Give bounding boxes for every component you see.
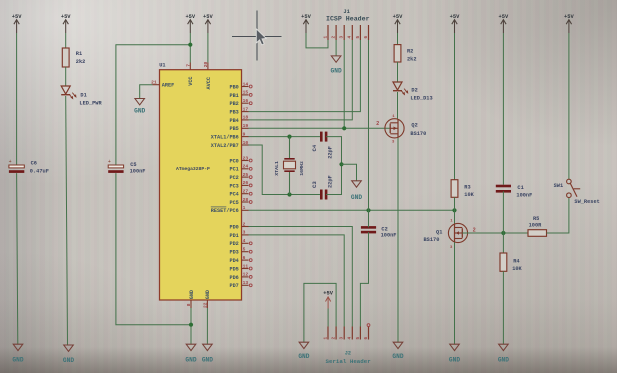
power +5V symbol (R1 supply)	[61, 14, 71, 33]
svg-text:U1: U1	[159, 63, 165, 69]
svg-text:R4: R4	[513, 259, 520, 265]
svg-text:SW1: SW1	[554, 183, 564, 189]
junction RESET / C2 / ICSP pin 6	[366, 208, 370, 212]
svg-text:GND: GND	[498, 356, 509, 363]
wire C6 to GND	[17, 173, 18, 344]
svg-text:ATmega328P-P: ATmega328P-P	[176, 166, 210, 172]
wire R2 to D2	[397, 62, 399, 82]
svg-text:+5V: +5V	[499, 14, 509, 20]
svg-text:4: 4	[348, 36, 353, 39]
svg-text:BS170: BS170	[423, 237, 439, 243]
svg-text:28: 28	[243, 197, 249, 203]
pin 22 GND stub	[206, 300, 208, 308]
svg-text:+5V: +5V	[61, 14, 71, 20]
svg-text:C1: C1	[517, 185, 523, 191]
svg-text:Q2: Q2	[411, 123, 417, 129]
svg-text:6: 6	[364, 337, 369, 340]
svg-text:24: 24	[243, 164, 249, 170]
pin 9 XTAL1/PB6 stub	[242, 136, 249, 138]
svg-text:5: 5	[356, 36, 361, 39]
svg-text:PD7: PD7	[229, 283, 238, 289]
svg-text:15: 15	[243, 90, 249, 96]
editor crosshair cursor	[232, 11, 282, 61]
svg-text:PD6: PD6	[229, 275, 238, 281]
svg-text:2: 2	[332, 337, 337, 340]
svg-text:27: 27	[243, 189, 249, 195]
svg-text:SW_Reset: SW_Reset	[574, 199, 599, 205]
svg-text:6: 6	[243, 255, 246, 261]
svg-text:GND: GND	[202, 357, 213, 364]
wire D1 to GND	[66, 96, 68, 345]
svg-text:5: 5	[243, 247, 246, 253]
svg-text:PD0: PD0	[229, 224, 238, 230]
svg-text:2k2: 2k2	[76, 59, 86, 65]
svg-text:7: 7	[185, 64, 191, 67]
svg-text:10: 10	[243, 140, 249, 146]
wire XTAL2 to C3	[249, 145, 322, 195]
svg-text:R3: R3	[464, 184, 470, 190]
wire C4 to GND net	[326, 137, 341, 165]
wire +5V to SW1	[568, 33, 570, 179]
svg-text:PD5: PD5	[229, 266, 238, 272]
junction C3/C4 ground net	[339, 162, 343, 166]
svg-text:+: +	[108, 159, 111, 165]
svg-text:C3: C3	[311, 181, 318, 188]
svg-text:3: 3	[243, 230, 246, 236]
capacitor C2 100nF	[361, 227, 376, 232]
svg-text:AREF: AREF	[162, 83, 174, 89]
resistor R3	[451, 180, 458, 198]
wire +5V to R1	[65, 33, 67, 48]
LED D2	[393, 82, 408, 95]
svg-text:22pF: 22pF	[328, 146, 334, 159]
svg-text:+5V: +5V	[12, 14, 22, 20]
svg-text:8: 8	[186, 303, 192, 306]
svg-text:BS170: BS170	[410, 131, 426, 137]
wire C5 bottom to GND pin 8 node	[116, 173, 191, 325]
pin 13 PD7 stub	[242, 284, 249, 286]
svg-text:+5V: +5V	[393, 14, 403, 20]
power +5V symbol (serial)	[323, 290, 333, 308]
svg-text:100nF: 100nF	[130, 168, 146, 174]
junction gate / C1 / R4 / R5	[501, 231, 505, 235]
svg-text:6: 6	[364, 36, 369, 39]
capacitor C1 100nF	[496, 186, 511, 191]
svg-text:18: 18	[243, 115, 249, 121]
wire C1 to gate node	[502, 191, 504, 233]
svg-text:XTAL1/PB6: XTAL1/PB6	[211, 135, 239, 141]
ground (C6)	[12, 344, 23, 363]
wire PB3 to ICSP pin 5	[249, 40, 361, 112]
ground (Q1)	[449, 344, 460, 363]
wire RESET to C2	[368, 210, 370, 227]
wire +5V to J2 pin 1	[327, 309, 329, 327]
svg-text:3: 3	[340, 36, 345, 39]
pin 19 PB5 stub	[242, 127, 249, 129]
ground (J1)	[331, 56, 342, 74]
svg-text:PB2: PB2	[229, 101, 238, 107]
svg-text:PD1: PD1	[229, 233, 238, 239]
svg-text:D2: D2	[411, 88, 417, 94]
wire ICSP pin 3 to SCK net	[343, 40, 345, 128]
junction SCK / ICSP pin 3	[342, 126, 346, 130]
ground (C3/C4)	[351, 181, 362, 201]
svg-text:26: 26	[243, 180, 249, 186]
power +5V symbol (VCC supply)	[185, 14, 195, 33]
svg-text:GND: GND	[12, 357, 23, 364]
svg-text:11: 11	[243, 263, 249, 269]
pin 20 AVCC stub	[207, 63, 209, 70]
svg-text:PB5: PB5	[229, 126, 238, 132]
capacitor C5	[108, 159, 124, 173]
svg-text:PD4: PD4	[229, 258, 238, 264]
wire C2 to serial pin 5 DTR	[360, 232, 368, 326]
svg-text:22pF: 22pF	[328, 175, 334, 188]
wire C3 to GND net	[326, 164, 341, 194]
resistor R5	[528, 230, 547, 237]
pin 6 PD4 stub	[242, 259, 249, 261]
pin 12 PD6 stub	[242, 276, 249, 278]
pin 7 VCC stub	[189, 63, 191, 70]
wire R5 to SW1	[547, 198, 569, 234]
svg-text:J1: J1	[343, 9, 349, 15]
junction C5 / GND pin 8	[189, 323, 193, 327]
wire +5V to VCC pin	[189, 33, 191, 63]
svg-text:100R: 100R	[529, 223, 543, 229]
pin 10 XTAL2/PB7 stub	[242, 144, 249, 146]
wire C5 top to VCC node	[116, 45, 190, 165]
svg-text:LED_D13: LED_D13	[410, 96, 432, 102]
svg-text:PC2: PC2	[229, 175, 238, 181]
svg-text:1: 1	[323, 36, 328, 39]
svg-text:1: 1	[243, 205, 246, 211]
wire +5V to C6	[16, 33, 18, 165]
svg-text:RESET/PC6: RESET/PC6	[211, 208, 239, 214]
svg-text:2: 2	[243, 221, 246, 227]
svg-text:10K: 10K	[512, 266, 522, 272]
pin 15 PB1 stub	[242, 94, 249, 96]
svg-text:2k2: 2k2	[407, 56, 417, 62]
svg-text:19: 19	[243, 123, 249, 129]
svg-text:2: 2	[473, 227, 476, 233]
wire +5V to C1	[502, 33, 504, 185]
ground (Q2)	[392, 342, 403, 360]
wire gate node to R4	[502, 233, 504, 253]
svg-text:PB4: PB4	[229, 118, 238, 124]
pin 8 GND stub	[190, 300, 192, 308]
svg-text:10K: 10K	[464, 192, 474, 198]
svg-text:ICSP Header: ICSP Header	[326, 16, 370, 23]
svg-text:GND: GND	[298, 353, 309, 360]
svg-text:3: 3	[392, 141, 395, 145]
wire +5V to R2	[397, 33, 399, 45]
svg-text:+5V: +5V	[301, 14, 311, 20]
svg-text:C4: C4	[311, 144, 318, 151]
svg-text:GND: GND	[63, 357, 74, 364]
switch SW1	[567, 179, 581, 197]
resistor R2	[394, 45, 401, 62]
svg-text:VCC: VCC	[188, 76, 194, 85]
ground (R4)	[498, 344, 509, 363]
svg-text:R1: R1	[76, 51, 82, 57]
svg-text:PD2: PD2	[229, 241, 238, 247]
wire PD1 TX to serial pin 3	[249, 235, 345, 327]
ground (U1 pin 22)	[202, 344, 213, 363]
junction VCC / C5	[188, 43, 192, 47]
svg-text:0.47uF: 0.47uF	[30, 169, 49, 175]
svg-text:PD3: PD3	[229, 250, 238, 256]
svg-text:3: 3	[450, 246, 453, 250]
svg-text:22: 22	[202, 302, 208, 308]
capacitor C3 22pF	[321, 190, 326, 200]
power +5V symbol (SW1 supply)	[564, 14, 574, 33]
power +5V symbol (R2 supply)	[393, 14, 403, 33]
svg-text:13: 13	[243, 280, 249, 286]
resistor R1	[62, 48, 69, 67]
wire +5V to J1 pin 1	[306, 33, 328, 48]
ground (D1)	[63, 345, 74, 364]
wire D2 to Q2 drain	[397, 92, 399, 119]
junction XTAL1 / crystal	[287, 135, 291, 139]
svg-text:2: 2	[376, 121, 379, 127]
svg-text:LED_PWR: LED_PWR	[79, 101, 102, 107]
wire Q2 source to GND	[397, 138, 399, 342]
wire PD0 RX to serial pin 4	[249, 227, 353, 327]
svg-text:+5V: +5V	[323, 290, 333, 296]
svg-text:16: 16	[243, 98, 249, 104]
svg-text:GND: GND	[392, 353, 403, 360]
wire Q1 source to GND	[454, 242, 456, 344]
wire PB4 to ICSP pin 4	[249, 40, 353, 120]
pin 4 PD2 stub	[242, 242, 249, 244]
junction XTAL2 / crystal	[287, 192, 291, 196]
wire RESET net	[249, 209, 455, 211]
ground (AREF)	[134, 99, 145, 115]
wire AREF to GND	[140, 85, 153, 99]
crystal XTAL1 16MHz	[284, 137, 296, 195]
svg-text:R5: R5	[533, 216, 539, 222]
capacitor C6	[9, 159, 25, 173]
svg-text:23: 23	[243, 155, 249, 161]
svg-text:+5V: +5V	[564, 14, 574, 20]
wire +5V to R3	[454, 33, 456, 180]
svg-text:100nF: 100nF	[381, 233, 397, 239]
svg-text:PB3: PB3	[229, 110, 238, 116]
svg-text:5: 5	[356, 337, 361, 340]
J2 pin 6 no-connect circle	[367, 324, 370, 327]
svg-text:J2: J2	[345, 351, 351, 357]
connector J2 serial header	[328, 327, 369, 340]
pin 2 PD0 stub	[242, 226, 249, 228]
svg-text:3: 3	[340, 337, 345, 340]
wire J1 pin 6 to RESET net	[368, 40, 370, 210]
svg-text:PC4: PC4	[229, 192, 238, 198]
wire PB5 / SCK net to Q2 gate	[249, 127, 391, 129]
transistor Q1 BS170	[448, 223, 467, 242]
ground (J2)	[298, 342, 309, 360]
wire R3 to RESET net	[454, 197, 456, 210]
junction RESET / R3 / Q1	[452, 208, 456, 212]
pin 14 PB0 stub	[242, 86, 249, 88]
pin 21 AREF stub	[153, 84, 160, 86]
pin 11 PD5 stub	[242, 268, 249, 270]
pin 23 PC0 stub	[242, 160, 249, 162]
pin 1 RESET/PC6 stub	[242, 209, 249, 211]
svg-text:XTAL1: XTAL1	[274, 161, 280, 176]
svg-text:100nF: 100nF	[516, 193, 532, 199]
LED D1	[61, 86, 76, 99]
svg-text:+5V: +5V	[203, 14, 213, 20]
svg-text:+5V: +5V	[185, 14, 195, 20]
svg-text:16MHz: 16MHz	[299, 161, 305, 176]
connector J1 ICSP header	[328, 25, 369, 40]
wire +5V to AVCC pin	[207, 33, 209, 63]
svg-text:2: 2	[332, 36, 337, 39]
svg-text:14: 14	[243, 81, 249, 87]
capacitor C4 22pF	[321, 132, 326, 142]
svg-text:PC5: PC5	[229, 200, 238, 206]
svg-text:D1: D1	[80, 92, 86, 98]
svg-text:GND: GND	[205, 290, 211, 299]
svg-text:+: +	[9, 159, 12, 165]
svg-text:GND: GND	[331, 67, 342, 74]
svg-text:PB0: PB0	[229, 84, 238, 90]
svg-text:AVCC: AVCC	[206, 77, 212, 89]
svg-text:PC1: PC1	[229, 167, 238, 173]
pin 28 PC5 stub	[242, 201, 249, 203]
pin 5 PD3 stub	[242, 251, 249, 253]
svg-text:GND: GND	[351, 194, 362, 201]
pin 27 PC4 stub	[242, 193, 249, 195]
svg-text:1: 1	[323, 337, 328, 340]
pin 25 PC2 stub	[242, 176, 249, 178]
wire GND pin 8 to ground	[190, 308, 192, 344]
svg-text:C5: C5	[130, 162, 136, 168]
svg-text:PB1: PB1	[229, 93, 238, 99]
svg-text:C2: C2	[381, 226, 387, 232]
svg-text:GND: GND	[449, 356, 460, 363]
ground (U1 pin 8)	[185, 344, 196, 363]
transistor Q2 BS170	[385, 119, 404, 138]
svg-text:4: 4	[243, 238, 246, 244]
svg-text:GND: GND	[185, 357, 196, 364]
pin 3 PD1 stub	[242, 234, 249, 236]
wire R1 to D1	[65, 67, 67, 86]
power +5V symbol (R3 supply)	[450, 14, 460, 33]
wire GND pin 22 to ground	[206, 308, 208, 344]
pin 18 PB4 stub	[242, 119, 249, 121]
svg-text:9: 9	[243, 131, 246, 137]
wire J2 pin 2 to GND	[304, 283, 336, 342]
svg-text:1: 1	[450, 220, 453, 224]
wire J1 pin 2 to GND	[335, 40, 337, 56]
svg-text:GND: GND	[134, 108, 145, 115]
svg-text:4: 4	[348, 337, 353, 340]
wire RESET to Q1 drain	[454, 210, 456, 223]
power +5V symbol (C6 supply)	[12, 14, 22, 33]
pin 26 PC3 stub	[242, 184, 249, 186]
pin 16 PB2 stub	[242, 102, 249, 104]
svg-text:C6: C6	[31, 161, 37, 167]
wire crystal cap ground	[342, 164, 357, 181]
svg-text:R2: R2	[407, 48, 413, 54]
microcontroller U1 ATmega328P-P	[160, 70, 242, 300]
wire R4 to GND	[502, 271, 504, 344]
pin 24 PC1 stub	[242, 168, 249, 170]
wire Q1 gate to R5 node	[462, 232, 528, 234]
power +5V symbol (AVCC supply)	[203, 14, 213, 33]
svg-text:25: 25	[243, 172, 249, 178]
svg-text:+5V: +5V	[450, 14, 460, 20]
svg-text:PC3: PC3	[229, 183, 238, 189]
svg-text:Q1: Q1	[436, 229, 442, 235]
power +5V symbol (ICSP supply)	[301, 14, 311, 33]
svg-text:XTAL2/PB7: XTAL2/PB7	[211, 143, 239, 149]
svg-text:Serial Header: Serial Header	[326, 358, 372, 365]
svg-text:12: 12	[243, 272, 249, 278]
wire XTAL1 to C4	[249, 136, 322, 138]
svg-text:PC0: PC0	[229, 158, 238, 164]
pin 17 PB3 stub	[242, 111, 249, 113]
svg-text:GND: GND	[189, 290, 195, 299]
resistor R4	[500, 253, 507, 271]
power +5V symbol (C1 supply)	[499, 14, 509, 33]
svg-text:17: 17	[243, 106, 249, 112]
